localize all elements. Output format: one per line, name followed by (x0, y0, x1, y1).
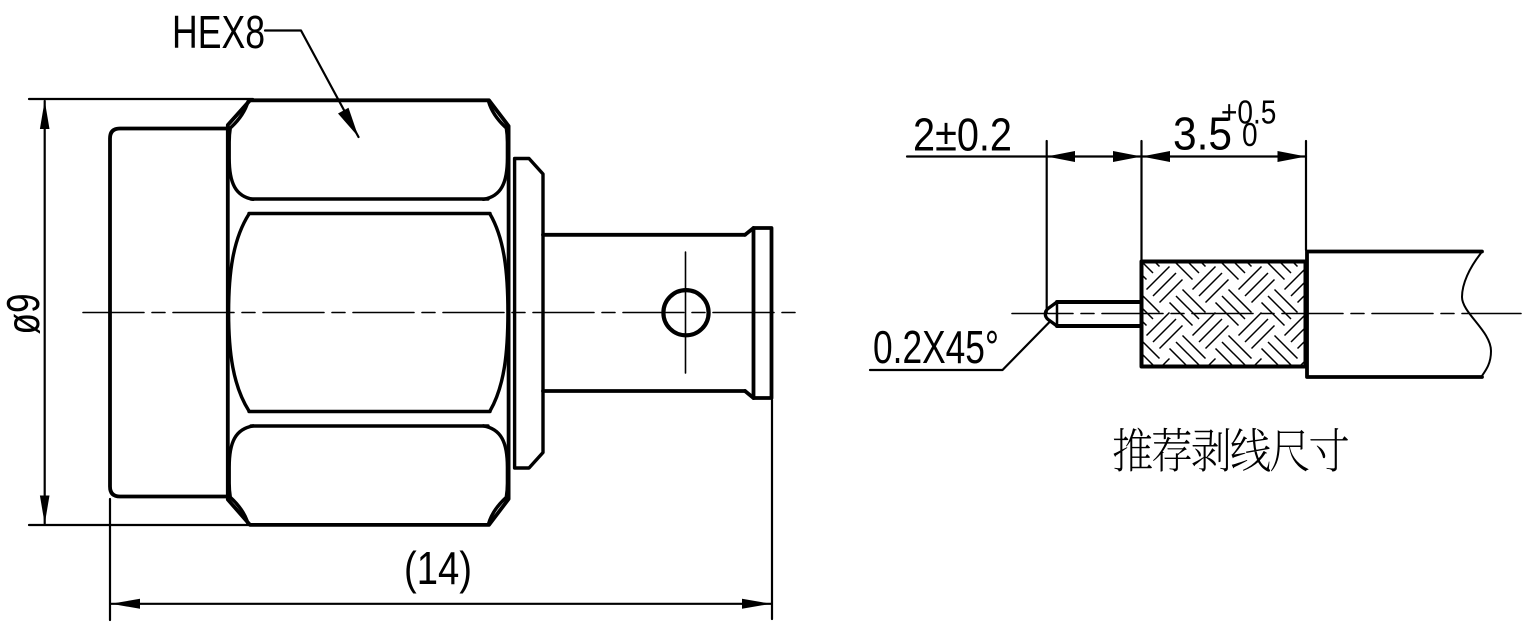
extension line pin tip (1046, 141, 1048, 313)
arrow 3.5 left (1142, 151, 1171, 162)
arrow HEX8 (338, 108, 359, 137)
svg-text:0.2X45°: 0.2X45° (873, 321, 999, 373)
hole crosshair (685, 252, 687, 373)
hex chamfer arc middle-left (229, 214, 249, 411)
hex facet line upper (249, 199, 490, 214)
barrel (543, 235, 745, 391)
hex chamfer arc bottom-right (484, 426, 508, 524)
center pin (1057, 302, 1141, 326)
arrow o9 top (40, 101, 50, 130)
arrow 2 right (1113, 151, 1142, 162)
flange washer (515, 159, 543, 469)
hex facet line lower (249, 412, 490, 427)
dimension (14) extension left (109, 499, 111, 620)
hex chamfer arc top-right (484, 102, 508, 200)
arrow 14 left (111, 599, 140, 609)
center line left view (83, 312, 803, 314)
extension line braid left (1140, 141, 1142, 260)
center line right view (1012, 313, 1521, 315)
braid section (1142, 262, 1306, 367)
svg-text:0: 0 (1242, 117, 1258, 154)
cable jacket (1307, 252, 1482, 378)
svg-text:ø9: ø9 (0, 294, 49, 335)
leader 0.2X45 (870, 322, 1050, 371)
dimension (14) extension right (771, 400, 773, 619)
extension line braid right (1305, 141, 1307, 250)
hex nut outline (228, 100, 509, 525)
pin chamfer line (1056, 302, 1059, 326)
svg-text:HEX8: HEX8 (172, 6, 265, 58)
svg-text:(14): (14) (404, 542, 472, 594)
jacket break curve (1462, 252, 1491, 376)
hex chamfer arc middle-right (490, 214, 508, 411)
dimension line right view (907, 155, 1306, 157)
leader HEX8 (265, 31, 359, 138)
dimension o9 extension bottom (29, 524, 253, 526)
dimension (14) line (111, 603, 771, 605)
end cap (754, 228, 772, 398)
barrel end flare (745, 228, 754, 398)
pin nose (1045, 302, 1057, 326)
svg-text:2±0.2: 2±0.2 (913, 109, 1012, 161)
arrow o9 bottom (40, 496, 50, 525)
arrow 3.5 right (1278, 151, 1307, 162)
connector body (left cylinder) (110, 129, 228, 497)
caption: recommended stripping dimensions (CJK glyph outlines) (1114, 428, 1348, 472)
solder hole (663, 290, 708, 335)
dimension o9 extension top (29, 98, 253, 100)
arrow 14 right (742, 599, 771, 609)
dimension o9 line (44, 101, 46, 524)
hex chamfer arc bottom-left (229, 426, 253, 524)
hex chamfer arc top-left (229, 102, 253, 200)
arrow 2 left (1047, 151, 1075, 162)
